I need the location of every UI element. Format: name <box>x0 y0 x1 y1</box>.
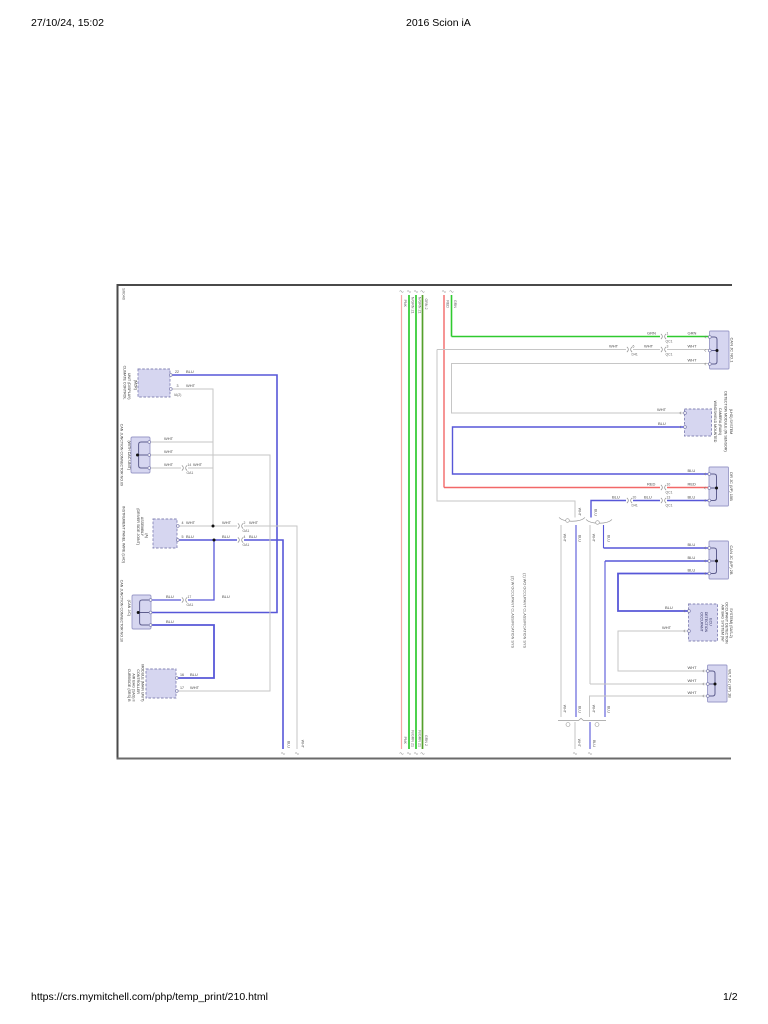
svg-text:WHT: WHT <box>657 407 667 412</box>
svg-text:4: 4 <box>244 535 246 539</box>
svg-text:INSTRUMENT PANEL WIRE (LHD): INSTRUMENT PANEL WIRE (LHD) <box>121 506 125 563</box>
svg-text:GA1: GA1 <box>243 543 250 547</box>
wire WHT vertical to bus <box>437 350 575 518</box>
svg-text:BLU: BLU <box>688 568 696 573</box>
header title <box>406 17 471 29</box>
svg-text:16: 16 <box>180 673 184 677</box>
svg-text:D41: D41 <box>632 504 638 508</box>
svg-text:BLU: BLU <box>593 509 597 516</box>
svg-text:BLU: BLU <box>222 594 230 599</box>
svg-text:WHT: WHT <box>688 678 698 683</box>
svg-text:BLU: BLU <box>606 535 610 542</box>
wire BLU R2 pin2 to R3 pin1 <box>453 427 710 474</box>
inline connector QC1 pin 10 <box>661 485 662 490</box>
svg-text:GRN 2: GRN 2 <box>424 735 428 746</box>
connector R4 CAN JC 2B <box>709 541 729 579</box>
connector C1 climate control (dashed box) <box>138 369 170 397</box>
svg-text:WHT: WHT <box>688 344 698 349</box>
svg-text:CAN JC (I/P) 2B: CAN JC (I/P) 2B <box>729 545 734 574</box>
svg-text:WHT: WHT <box>688 665 698 670</box>
svg-text:QC1: QC1 <box>666 353 673 357</box>
svg-text:WHT: WHT <box>688 358 698 363</box>
svg-text:WLT JC (I/P) 1B: WLT JC (I/P) 1B <box>727 669 732 698</box>
svg-text:BLU: BLU <box>658 421 666 426</box>
svg-text:WHT: WHT <box>222 520 232 525</box>
svg-text:MODULE (MAIN UNIT): MODULE (MAIN UNIT) <box>140 664 144 701</box>
svg-text:BLU: BLU <box>222 534 230 539</box>
svg-text:5: 5 <box>182 535 184 539</box>
bus bracket top 2 <box>586 520 612 524</box>
svg-text:ECU: ECU <box>708 618 712 626</box>
svg-text:WHT: WHT <box>662 625 672 630</box>
trunk wire GRN <box>451 295 453 337</box>
svg-text:WHT: WHT <box>186 520 196 525</box>
svg-text:BLU: BLU <box>577 706 581 713</box>
svg-text:20: 20 <box>633 496 637 500</box>
svg-text:(DRIVER SIDE JOINT): (DRIVER SIDE JOINT) <box>136 508 140 545</box>
svg-text:DETECTION: DETECTION <box>704 612 708 633</box>
svg-text:QC1: QC1 <box>666 491 673 495</box>
svg-text:GRN: GRN <box>453 300 457 308</box>
header date <box>31 17 104 29</box>
svg-text:(WITH DAC UNIT): (WITH DAC UNIT) <box>127 440 131 470</box>
svg-text:CONTROLLER: CONTROLLER <box>136 669 140 694</box>
svg-text:WHT: WHT <box>164 436 174 441</box>
wire WHT bus to R6 pin2 <box>590 683 708 685</box>
svg-text:13: 13 <box>667 496 671 500</box>
svg-text:CAN JUNCTION CONNECTOR NO.09: CAN JUNCTION CONNECTOR NO.09 <box>120 424 124 486</box>
trunk wire PNK <box>401 295 403 749</box>
wire BLU R4 pin3 to ECU pin1 <box>618 574 709 612</box>
C5 pins <box>175 677 178 680</box>
wire BLU C1-22 to J4-2 <box>152 375 277 613</box>
svg-text:WINDSHIELD MOUNTED: WINDSHIELD MOUNTED <box>713 401 717 443</box>
svg-text:CLIMATE CONTROL: CLIMATE CONTROL <box>122 366 126 400</box>
connector C3 I/P wire (dashed box) <box>153 519 177 548</box>
wire BLU C3-5 to branch <box>179 539 237 541</box>
svg-text:BLU: BLU <box>186 534 194 539</box>
wire GRN to R1 pin1 <box>452 336 661 338</box>
svg-text:RED: RED <box>688 482 697 487</box>
inline connector GA1 pin 14 <box>182 465 183 470</box>
svg-text:WHT: WHT <box>591 705 595 714</box>
svg-text:WHT: WHT <box>562 534 566 543</box>
svg-text:4: 4 <box>182 521 184 525</box>
svg-text:WHT: WHT <box>591 534 595 543</box>
svg-text:N/GRN 21: N/GRN 21 <box>410 297 414 314</box>
wire WHT J2-3 <box>150 467 181 469</box>
svg-text:OCCUPANT DETECTION: OCCUPANT DETECTION <box>725 602 729 644</box>
svg-text:OCCUPANT: OCCUPANT <box>700 612 704 632</box>
svg-text:IA(2): IA(2) <box>174 393 181 397</box>
svg-text:WHT: WHT <box>193 462 203 467</box>
bus bracket bottom <box>558 718 606 720</box>
diagram frame top border <box>117 284 733 286</box>
bus wire BLU 2 <box>603 525 605 548</box>
svg-text:GA1: GA1 <box>243 529 250 533</box>
svg-text:N/GRN 21: N/GRN 21 <box>417 297 421 314</box>
J4 junction dot <box>137 611 140 614</box>
bus continuation WHT <box>574 722 576 749</box>
joint connector J2 <box>131 437 150 473</box>
svg-text:6: 6 <box>633 345 635 349</box>
bus bracket top 1 <box>559 518 585 522</box>
footer page number <box>723 991 738 1003</box>
inline connector QC1 pin 3 <box>661 347 662 352</box>
connector R2 camera module (dashed) <box>685 409 712 436</box>
svg-text:N/GRN 21: N/GRN 21 <box>410 730 414 747</box>
svg-text:BLU: BLU <box>644 495 652 500</box>
junction dots <box>212 525 215 528</box>
svg-text:CAMERA (RAIN): CAMERA (RAIN) <box>718 408 722 435</box>
svg-text:QC1: QC1 <box>666 340 673 344</box>
wire BLU branch to J4-1 <box>188 540 214 600</box>
svg-text:BLU: BLU <box>287 741 291 748</box>
wire WHT R1 pin3 to R2 pin1 <box>452 364 709 414</box>
svg-text:CAN JC NO.1: CAN JC NO.1 <box>729 338 734 364</box>
wire WHT to R1 pin2 <box>437 349 626 351</box>
svg-text:WHT: WHT <box>164 449 174 454</box>
occupant detection ECU (dashed box) <box>689 604 718 641</box>
svg-text:WHT: WHT <box>249 520 259 525</box>
svg-text:BLU: BLU <box>688 542 696 547</box>
J2 junction dot <box>136 454 139 457</box>
svg-text:(MZR): (MZR) <box>134 380 138 390</box>
connector R3 DR JC <box>709 467 729 506</box>
J4 pins <box>149 599 152 602</box>
diagram frame bottom border <box>117 758 732 760</box>
svg-text:PNK: PNK <box>403 300 407 308</box>
svg-text:QC1: QC1 <box>666 504 673 508</box>
trunk wire RED <box>443 295 445 488</box>
svg-text:DETECTION MODULE (IN SENSOR): DETECTION MODULE (IN SENSOR) <box>724 391 728 451</box>
svg-text:SYSTEM) (SAS-2): SYSTEM) (SAS-2) <box>729 608 733 638</box>
svg-text:GA1: GA1 <box>187 603 194 607</box>
svg-text:BLU: BLU <box>612 495 620 500</box>
connector R1 CAN JC 1B <box>710 331 730 369</box>
joint connector J4 <box>132 595 151 629</box>
wire WHT J2-2 to C5-17 <box>150 455 270 691</box>
footer url <box>31 991 268 1003</box>
svg-text:10: 10 <box>667 483 671 487</box>
svg-text:CAN JUNCTION CONNECTOR NO.10: CAN JUNCTION CONNECTOR NO.10 <box>120 580 124 642</box>
bus wire WHT 2 <box>589 525 591 684</box>
svg-text:CURBSIDE (SRS) B: CURBSIDE (SRS) B <box>127 669 131 702</box>
inline connector GA1 pin 4 <box>238 537 239 542</box>
svg-text:BLU: BLU <box>166 594 174 599</box>
svg-text:1: 1 <box>667 332 669 336</box>
svg-text:WHT: WHT <box>164 462 174 467</box>
C3 pins <box>176 525 179 528</box>
svg-text:AIR BAG SYSTEM (W/: AIR BAG SYSTEM (W/ <box>720 605 724 642</box>
wire BLU bus to R4 pin2 <box>605 560 709 562</box>
svg-text:WHT: WHT <box>644 344 654 349</box>
svg-text:UNIT (DISPLAY): UNIT (DISPLAY) <box>127 373 131 400</box>
wire WHT J2-1 <box>150 441 213 443</box>
svg-text:WHT: WHT <box>577 739 581 748</box>
svg-text:(2) W OCCUPANT CLASSIFICATION: (2) W OCCUPANT CLASSIFICATION SYS <box>511 576 515 648</box>
bus continuation BLU <box>589 722 591 749</box>
svg-text:WHT: WHT <box>609 344 619 349</box>
svg-text:BLU: BLU <box>577 535 581 542</box>
trunk wire N/GRN 21 <box>408 295 410 749</box>
svg-text:ASSEMBLY: ASSEMBLY <box>140 517 144 537</box>
svg-text:(A): (A) <box>144 533 148 538</box>
trunk wire N/GRN 21 <box>415 295 417 749</box>
svg-text:17: 17 <box>180 686 184 690</box>
wire BLU J4-3 to C5-16 <box>152 625 214 678</box>
svg-text:BLU: BLU <box>688 468 696 473</box>
svg-text:BLU: BLU <box>186 369 194 374</box>
C1 pins <box>169 374 172 377</box>
svg-text:(1) WO OCCUPANT CLASSIFICATION: (1) WO OCCUPANT CLASSIFICATION SYS <box>523 573 527 648</box>
wire WHT C1-3 down <box>172 389 213 526</box>
svg-text:WHT: WHT <box>186 383 196 388</box>
inline connector QC1 pin 1 <box>661 334 662 339</box>
svg-text:GRN: GRN <box>647 331 656 336</box>
svg-text:2: 2 <box>244 521 246 525</box>
svg-text:14: 14 <box>188 463 192 467</box>
svg-text:RED: RED <box>647 482 656 487</box>
svg-text:DR JC (I/P) 15B: DR JC (I/P) 15B <box>729 472 734 501</box>
svg-text:BLU: BLU <box>688 555 696 560</box>
wire BLU bus to R4 pin1 <box>604 547 710 549</box>
svg-text:BLU: BLU <box>688 495 696 500</box>
J2 pins <box>148 441 151 444</box>
wire WHT R6 pin3 <box>590 696 709 717</box>
svg-text:BLU: BLU <box>592 740 596 747</box>
inline connector GA1 pin 2 <box>238 523 239 528</box>
svg-text:D41: D41 <box>632 353 638 357</box>
svg-text:AIR BAG (SAS) II: AIR BAG (SAS) II <box>132 673 136 701</box>
svg-text:17: 17 <box>188 595 192 599</box>
svg-text:WHT: WHT <box>301 740 305 749</box>
bus wire BLU 1 <box>575 525 577 717</box>
svg-text:WHT: WHT <box>577 508 581 517</box>
bus wire WHT 1 <box>560 525 562 717</box>
svg-text:BLU: BLU <box>166 619 174 624</box>
inline connector GA1 pin 17 <box>182 597 183 602</box>
svg-text:RED: RED <box>445 300 449 308</box>
wire WHT C3-4 to bottom <box>179 525 237 527</box>
wire RED to R3 pin2 <box>444 487 660 489</box>
svg-text:WHT: WHT <box>688 690 698 695</box>
svg-text:BLU: BLU <box>249 534 257 539</box>
svg-text:PNK: PNK <box>403 737 407 745</box>
svg-text:(CAN J/C): (CAN J/C) <box>127 600 131 616</box>
wire WHT ECU pin2 to R6 pin1 <box>618 631 708 671</box>
inline connector QC1 pin 13 <box>661 498 662 503</box>
svg-text:BLU: BLU <box>190 672 198 677</box>
trunk wire GRN 2 <box>422 295 424 749</box>
svg-text:GRN: GRN <box>688 331 697 336</box>
svg-text:SX040: SX040 <box>122 288 127 301</box>
svg-text:WHT: WHT <box>562 705 566 714</box>
svg-text:GRN 2: GRN 2 <box>424 299 428 310</box>
svg-text:(LHD) SYSTEM: (LHD) SYSTEM <box>729 409 733 434</box>
svg-text:3: 3 <box>177 384 179 388</box>
svg-text:WHT: WHT <box>190 685 200 690</box>
diagram frame left border <box>117 284 119 759</box>
svg-text:GA1: GA1 <box>187 471 194 475</box>
inline connector D41 pin 20 <box>627 498 628 503</box>
svg-text:3: 3 <box>667 345 669 349</box>
connector C5 SAS module (dashed box) <box>146 669 176 698</box>
wire BLU R3 pin3 to bus <box>667 500 709 502</box>
inline connector D41 pin 6 <box>627 347 628 352</box>
svg-text:22: 22 <box>175 370 179 374</box>
connector R6 WLT JC <box>708 665 728 702</box>
svg-text:N/GRN 21: N/GRN 21 <box>417 730 421 747</box>
svg-text:BLU: BLU <box>665 605 673 610</box>
svg-text:BLU: BLU <box>606 706 610 713</box>
